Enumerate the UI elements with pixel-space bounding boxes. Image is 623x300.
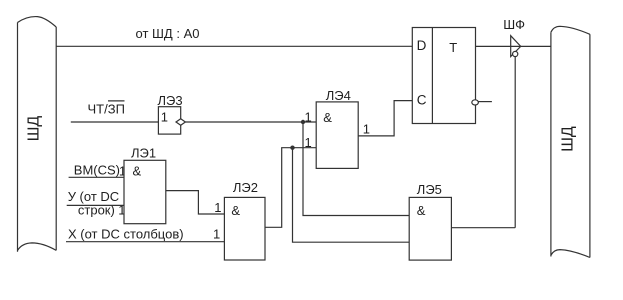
svg-text:1: 1 — [214, 200, 221, 215]
inverted output circle of U1 — [472, 100, 479, 105]
node junction dot A — [301, 120, 305, 124]
wire ЛЭ5 output to buffer branch — [451, 227, 515, 229]
wire ЛЭ2 output to ЛЭ4 input 2 — [265, 148, 316, 228]
node junction dot B — [290, 146, 294, 150]
bus ШД left — [18, 17, 57, 252]
gate ЛЭ1 (AND) — [124, 146, 166, 224]
diamond on ЛЭ3 output — [176, 119, 185, 126]
svg-text:1: 1 — [213, 227, 220, 242]
buffer ШФ triangle — [511, 36, 521, 57]
svg-text:ШД: ШД — [26, 116, 43, 142]
svg-text:ШД: ШД — [560, 126, 577, 152]
bus ШД right — [551, 26, 590, 257]
svg-text:C: C — [417, 93, 427, 108]
wire stub from inverted output — [478, 101, 492, 103]
gate ЛЭ4 (AND) — [305, 88, 359, 169]
gate ЛЭ2 (AND) — [214, 180, 265, 260]
svg-text:&: & — [417, 203, 426, 218]
svg-text:&: & — [231, 203, 240, 218]
wire ЛЭ1 output to ЛЭ2 input 1 — [166, 191, 225, 214]
wire ЛЭ3 output to ЛЭ4 input 1 — [185, 121, 316, 123]
svg-text:ЛЭ1: ЛЭ1 — [131, 146, 156, 161]
svg-text:&: & — [323, 110, 332, 125]
svg-text:от ШД : А0: от ШД : А0 — [136, 26, 200, 41]
svg-text:ВМ(CS): ВМ(CS) — [74, 162, 120, 177]
wire Х to ЛЭ2 input 2 — [66, 241, 224, 243]
svg-text:ЛЭ3: ЛЭ3 — [158, 93, 183, 108]
flip-flop U1 (D trigger T) — [412, 28, 475, 124]
wire ЧТ/ЗП to ЛЭ3 — [71, 121, 159, 123]
wire node B down to ЛЭ5 input 2 — [293, 148, 410, 243]
svg-text:ЛЭ4: ЛЭ4 — [326, 88, 351, 103]
svg-text:ШФ: ШФ — [503, 17, 525, 32]
svg-text:1: 1 — [363, 122, 370, 137]
wire U1 output to buffer — [476, 45, 551, 47]
wire node A down to ЛЭ5 input 1 — [303, 122, 409, 216]
wire ВМ(CS) to ЛЭ1 input 1 — [69, 176, 124, 178]
svg-text:ЛЭ2: ЛЭ2 — [233, 180, 258, 195]
buffer inverting circle — [513, 51, 518, 56]
svg-text:1: 1 — [305, 110, 312, 125]
gate ЛЭ3 (inverter) — [158, 93, 183, 134]
svg-text:T: T — [449, 40, 457, 55]
wire У to ЛЭ1 input 2 — [67, 204, 124, 206]
svg-text:Х (от DC столбцов): Х (от DC столбцов) — [68, 227, 184, 242]
gate ЛЭ5 (AND) — [409, 182, 451, 260]
svg-text:D: D — [417, 38, 427, 53]
wire ЛЭ4 output to U1 C input — [358, 101, 412, 136]
wire buffer circle down to ЛЭ5 output — [514, 57, 516, 228]
wire от ШД : А0 (top, bus to D input) — [56, 45, 412, 47]
svg-text:ЧТ/ЗП: ЧТ/ЗП — [88, 102, 125, 117]
svg-text:ЛЭ5: ЛЭ5 — [417, 182, 442, 197]
svg-text:1: 1 — [161, 110, 168, 125]
svg-text:&: & — [133, 163, 142, 178]
svg-text:1: 1 — [305, 135, 312, 150]
